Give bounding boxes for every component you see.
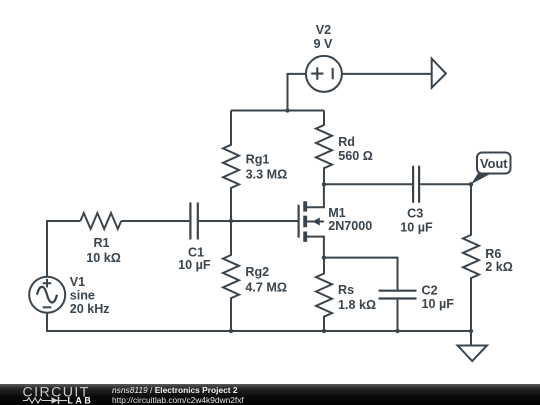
voltage source V2	[306, 56, 342, 92]
svg-text:10 µF: 10 µF	[400, 221, 433, 235]
label C1 10 uF	[178, 246, 211, 272]
footer bar	[0, 384, 540, 405]
svg-text:2N7000: 2N7000	[328, 219, 372, 233]
svg-text:2 kΩ: 2 kΩ	[485, 260, 513, 274]
wire drain to C3	[324, 183, 412, 185]
junction source node	[322, 255, 326, 259]
svg-text:560 Ω: 560 Ω	[338, 149, 373, 163]
resistor R1	[80, 213, 121, 229]
capacitor C2	[379, 291, 417, 299]
svg-text:20 kHz: 20 kHz	[70, 302, 110, 316]
capacitor C1	[190, 203, 197, 240]
label C3 10 uF	[400, 207, 433, 235]
svg-text:V2: V2	[316, 23, 331, 37]
wire V2 right	[342, 73, 432, 75]
svg-text:3.3 MΩ: 3.3 MΩ	[246, 168, 288, 182]
wire V1 to R1	[47, 221, 80, 277]
transistor M1 NMOS	[299, 184, 324, 257]
junction gate node	[229, 219, 233, 223]
junction C2 bottom	[395, 329, 399, 333]
junction Rg2 bottom	[229, 329, 233, 333]
svg-text:1.8 kΩ: 1.8 kΩ	[338, 298, 376, 312]
label R6 2 kOhm	[485, 247, 513, 274]
label M1 2N7000	[328, 206, 372, 233]
wire R1 to C1	[121, 220, 189, 222]
label Rg2 4.7 MOhm	[245, 265, 287, 295]
svg-text:C3: C3	[407, 207, 423, 221]
resistor Rg1	[223, 111, 239, 222]
svg-text:9 V: 9 V	[314, 37, 334, 51]
junction ground node	[469, 329, 473, 333]
wire top bus	[231, 110, 324, 112]
svg-text:V1: V1	[70, 275, 85, 289]
label Rs 1.8 kOhm	[338, 283, 376, 312]
footer text line 2	[112, 395, 244, 405]
svg-text:10 µF: 10 µF	[178, 258, 211, 272]
svg-text:Rs: Rs	[338, 283, 354, 297]
svg-text:R6: R6	[485, 247, 501, 261]
svg-text:LAB: LAB	[68, 395, 94, 405]
label C2 10 uF	[422, 283, 455, 311]
svg-text:Vout: Vout	[480, 156, 508, 171]
svg-text:M1: M1	[328, 206, 346, 220]
voltage source V1	[29, 277, 65, 313]
ground	[458, 331, 487, 361]
node flag Vout	[471, 153, 511, 185]
label V2 9 V	[314, 23, 334, 51]
junction Rs bottom	[322, 329, 326, 333]
wire C2 bottom	[397, 300, 399, 331]
wire bottom bus	[47, 312, 471, 331]
wire C1 to gate	[199, 220, 298, 222]
capacitor C3	[413, 166, 419, 203]
resistor Rd	[316, 111, 332, 185]
junction top bus	[285, 108, 289, 112]
svg-text:sine: sine	[70, 289, 95, 303]
junction Vout node	[469, 182, 473, 186]
junction drain node	[322, 182, 326, 186]
wire source node to C2	[324, 258, 398, 290]
svg-text:10 kΩ: 10 kΩ	[86, 251, 121, 265]
svg-text:Rd: Rd	[338, 135, 355, 149]
svg-text:4.7 MΩ: 4.7 MΩ	[245, 281, 287, 295]
resistor Rs	[316, 258, 332, 331]
power flag terminal	[432, 59, 446, 88]
label R1 10 kOhm	[86, 236, 121, 265]
resistor R6	[463, 184, 479, 331]
svg-text:C2: C2	[422, 283, 438, 297]
label Rd 560 Ohm	[338, 135, 373, 163]
svg-text:R1: R1	[93, 236, 109, 250]
svg-text:Rg2: Rg2	[245, 265, 269, 279]
label V1 sine 20 kHz	[70, 275, 110, 316]
svg-text:10 µF: 10 µF	[422, 297, 455, 311]
footer text line 1	[112, 385, 238, 395]
wire V2 left to top bus	[288, 74, 307, 111]
wire C3 to Vout node	[420, 183, 471, 185]
svg-text:Rg1: Rg1	[246, 153, 270, 167]
resistor Rg2	[223, 221, 239, 331]
label Rg1 3.3 MOhm	[246, 153, 288, 182]
footer logo CIRCUIT LAB	[0, 384, 110, 405]
